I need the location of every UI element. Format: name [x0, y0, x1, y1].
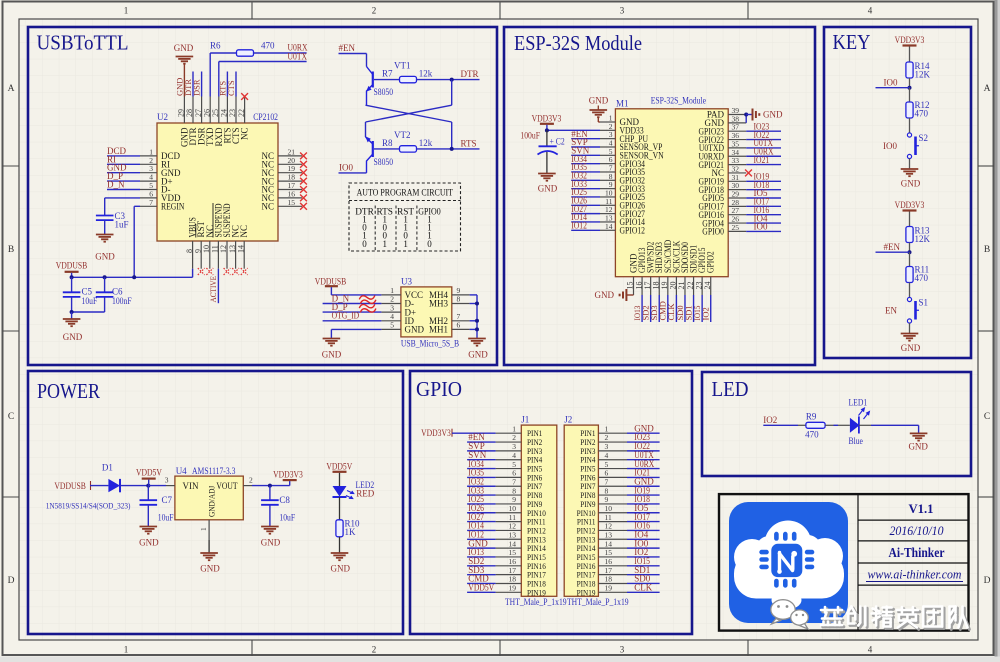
svg-text:R6: R6 — [210, 41, 221, 51]
svg-text:25: 25 — [732, 223, 740, 232]
svg-text:POWER: POWER — [37, 379, 100, 403]
svg-text:2: 2 — [249, 476, 253, 485]
svg-text:ACTIVE: ACTIVE — [208, 276, 218, 303]
svg-text:9: 9 — [512, 495, 516, 504]
svg-text:1: 1 — [124, 645, 129, 655]
svg-text:470: 470 — [805, 430, 819, 440]
svg-text:7: 7 — [512, 477, 516, 486]
svg-text:17: 17 — [509, 566, 517, 575]
svg-text:12: 12 — [605, 522, 613, 531]
svg-text:100uF: 100uF — [520, 131, 540, 141]
svg-text:MH1: MH1 — [429, 325, 448, 335]
svg-text:2016/10/10: 2016/10/10 — [890, 523, 944, 538]
svg-text:GND: GND — [322, 350, 342, 360]
svg-text:9: 9 — [605, 495, 609, 504]
svg-text:3: 3 — [165, 476, 169, 485]
svg-text:DSR: DSR — [192, 79, 202, 96]
svg-text:S1: S1 — [919, 298, 929, 308]
svg-text:16: 16 — [509, 557, 517, 566]
svg-text:IO2: IO2 — [701, 307, 711, 320]
svg-text:15: 15 — [605, 548, 613, 557]
svg-text:2: 2 — [512, 433, 516, 442]
svg-text:14: 14 — [605, 222, 613, 231]
svg-text:3: 3 — [605, 442, 609, 451]
svg-text:ESP-32S Module: ESP-32S Module — [514, 31, 642, 55]
svg-text:R7: R7 — [382, 69, 393, 79]
svg-text:+ C2: + C2 — [550, 137, 565, 147]
svg-text:GND: GND — [763, 110, 783, 120]
svg-text:B: B — [984, 245, 990, 255]
svg-text:GND: GND — [901, 343, 921, 353]
svg-text:IO2: IO2 — [763, 415, 777, 425]
svg-text:1: 1 — [403, 239, 408, 249]
svg-text:17: 17 — [605, 566, 613, 575]
svg-text:Blue: Blue — [849, 436, 863, 446]
svg-text:8: 8 — [512, 486, 516, 495]
svg-text:DTR: DTR — [461, 69, 479, 79]
svg-text:1: 1 — [124, 6, 129, 16]
svg-text:GND: GND — [901, 179, 921, 189]
svg-text:470: 470 — [915, 273, 929, 283]
svg-text:AUTO PROGRAM CIRCUIT: AUTO PROGRAM CIRCUIT — [357, 189, 454, 199]
svg-text:14: 14 — [236, 245, 245, 253]
svg-text:13: 13 — [605, 530, 613, 539]
svg-text:1: 1 — [382, 239, 387, 249]
svg-text:NC: NC — [240, 128, 250, 141]
svg-text:13: 13 — [509, 530, 517, 539]
svg-text:VDD3V3: VDD3V3 — [895, 200, 925, 210]
svg-text:RTS: RTS — [461, 138, 477, 148]
svg-text:LED: LED — [712, 377, 749, 401]
svg-text:4: 4 — [512, 451, 516, 460]
svg-text:U2: U2 — [157, 112, 168, 122]
svg-text:VDD5V: VDD5V — [468, 583, 494, 593]
svg-text:10uF: 10uF — [158, 513, 174, 523]
svg-text:5: 5 — [390, 321, 394, 330]
svg-text:J2: J2 — [564, 415, 572, 425]
svg-text:VDDUSB: VDDUSB — [56, 261, 88, 271]
svg-text:GND: GND — [63, 332, 83, 342]
svg-text:3: 3 — [620, 6, 625, 16]
svg-text:3: 3 — [620, 645, 625, 655]
svg-text:C: C — [984, 412, 990, 422]
svg-text:VDD3V3: VDD3V3 — [273, 469, 303, 479]
svg-text:5: 5 — [605, 460, 609, 469]
svg-text:GND: GND — [405, 325, 425, 335]
svg-text:GPIO0: GPIO0 — [702, 227, 724, 237]
svg-text:16: 16 — [605, 557, 613, 566]
svg-text:S8050: S8050 — [374, 87, 394, 97]
svg-text:GND/ADJ: GND/ADJ — [207, 485, 217, 517]
svg-text:U4: U4 — [176, 466, 187, 476]
svg-text:VDD5V: VDD5V — [326, 462, 352, 472]
svg-text:3: 3 — [512, 442, 516, 451]
svg-text:0: 0 — [362, 239, 367, 249]
svg-text:22: 22 — [237, 109, 246, 117]
svg-text:6: 6 — [512, 469, 516, 478]
svg-text:Ai-Thinker: Ai-Thinker — [889, 545, 945, 560]
svg-text:C: C — [8, 412, 14, 422]
svg-text:18: 18 — [605, 575, 613, 584]
svg-text:24: 24 — [703, 282, 712, 290]
svg-text:GND: GND — [95, 252, 115, 262]
svg-text:14: 14 — [509, 539, 517, 548]
svg-text:VOUT: VOUT — [216, 481, 238, 491]
svg-text:470: 470 — [261, 41, 275, 51]
svg-text:14: 14 — [605, 539, 613, 548]
svg-text:2: 2 — [372, 645, 377, 655]
svg-text:6: 6 — [457, 321, 461, 330]
svg-text:D1: D1 — [102, 463, 113, 473]
svg-text:THT_Male_P_1x19: THT_Male_P_1x19 — [505, 597, 567, 607]
svg-text:CP2102: CP2102 — [253, 112, 278, 122]
svg-text:MH3: MH3 — [429, 299, 449, 309]
svg-text:OTG_ID: OTG_ID — [332, 311, 360, 321]
svg-text:USBToTTL: USBToTTL — [37, 31, 129, 55]
svg-text:10uF: 10uF — [82, 296, 98, 306]
svg-text:VDDUSB: VDDUSB — [315, 276, 347, 286]
svg-text:S8050: S8050 — [374, 157, 394, 167]
svg-text:19: 19 — [509, 584, 517, 593]
svg-text:J1: J1 — [521, 415, 529, 425]
svg-text:REGIN: REGIN — [161, 202, 185, 212]
svg-text:7: 7 — [605, 477, 609, 486]
svg-text:8: 8 — [457, 295, 461, 304]
svg-text:12: 12 — [509, 522, 517, 531]
svg-text:10uF: 10uF — [279, 513, 295, 523]
svg-text:12k: 12k — [419, 138, 433, 148]
svg-text:5: 5 — [512, 460, 516, 469]
svg-text:12K: 12K — [915, 234, 931, 244]
svg-text:LED1: LED1 — [849, 398, 868, 408]
svg-text:THT_Male_P_1x19: THT_Male_P_1x19 — [567, 597, 629, 607]
svg-text:19: 19 — [605, 584, 613, 593]
svg-text:#EN: #EN — [339, 43, 356, 53]
svg-text:100nF: 100nF — [112, 296, 132, 306]
svg-text:10: 10 — [605, 504, 613, 513]
svg-text:B: B — [8, 245, 14, 255]
svg-text:VDD3V3: VDD3V3 — [421, 428, 451, 438]
svg-text:M1: M1 — [616, 99, 629, 109]
svg-text:C8: C8 — [279, 495, 290, 505]
svg-text:GND: GND — [538, 184, 558, 194]
svg-text:U0TX: U0TX — [288, 51, 308, 61]
svg-text:NC: NC — [261, 202, 274, 212]
svg-text:VDD3V3: VDD3V3 — [895, 35, 925, 45]
svg-text:IO0: IO0 — [339, 163, 353, 173]
svg-text:ESP-32S_Module: ESP-32S_Module — [651, 96, 706, 106]
svg-text:IO21: IO21 — [754, 155, 770, 165]
svg-text:VDD5V: VDD5V — [136, 468, 162, 478]
svg-text:15: 15 — [509, 548, 517, 557]
svg-text:IO0: IO0 — [883, 141, 897, 151]
svg-text:GND: GND — [174, 43, 194, 53]
svg-text:3: 3 — [390, 303, 394, 312]
svg-text:IO12: IO12 — [571, 220, 587, 230]
svg-text:1: 1 — [512, 424, 516, 433]
svg-text:1: 1 — [605, 424, 609, 433]
svg-text:1: 1 — [199, 527, 208, 531]
svg-text:C6: C6 — [112, 287, 123, 297]
svg-text:4: 4 — [868, 6, 873, 16]
svg-text:GPIO2: GPIO2 — [706, 251, 716, 273]
svg-text:2: 2 — [605, 433, 609, 442]
svg-text:PIN19: PIN19 — [527, 587, 546, 597]
svg-text:IO0: IO0 — [884, 78, 898, 88]
svg-text:#EN: #EN — [884, 242, 901, 252]
svg-text:CLK: CLK — [634, 583, 653, 593]
svg-text:1K: 1K — [345, 527, 357, 537]
svg-text:RED: RED — [356, 489, 375, 499]
svg-text:VIN: VIN — [183, 481, 199, 491]
svg-text:PIN19: PIN19 — [577, 587, 596, 597]
svg-text:GND: GND — [331, 564, 351, 574]
svg-text:VT2: VT2 — [394, 130, 411, 140]
svg-text:470: 470 — [915, 109, 929, 119]
svg-text:S2: S2 — [919, 133, 929, 143]
svg-text:A: A — [984, 84, 991, 94]
svg-text:VT1: VT1 — [394, 61, 411, 71]
svg-text:GPIO: GPIO — [416, 377, 462, 401]
svg-text:4: 4 — [605, 451, 609, 460]
svg-text:12k: 12k — [419, 69, 433, 79]
svg-text:6: 6 — [605, 469, 609, 478]
svg-text:GND: GND — [200, 564, 220, 574]
svg-text:GPIO12: GPIO12 — [620, 225, 646, 235]
svg-text:KEY: KEY — [833, 30, 871, 54]
svg-text:D: D — [8, 576, 15, 586]
svg-text:1N5819/SS14/S4(SOD_323): 1N5819/SS14/S4(SOD_323) — [46, 501, 131, 511]
svg-text:GND: GND — [261, 538, 281, 548]
svg-text:U3: U3 — [401, 276, 412, 286]
svg-text:R9: R9 — [806, 412, 817, 422]
svg-text:www.ai-thinker.com: www.ai-thinker.com — [868, 568, 962, 582]
svg-text:USB_Micro_5S_B: USB_Micro_5S_B — [401, 338, 459, 348]
svg-text:VDD3V3: VDD3V3 — [532, 114, 562, 124]
svg-text:0: 0 — [427, 239, 432, 249]
svg-text:GND: GND — [908, 442, 928, 452]
svg-text:1uF: 1uF — [115, 220, 129, 230]
svg-text:NC: NC — [239, 225, 249, 238]
svg-text:7: 7 — [149, 198, 153, 207]
svg-text:CTS: CTS — [226, 80, 236, 96]
svg-text:C5: C5 — [82, 287, 93, 297]
svg-text:18: 18 — [509, 575, 517, 584]
svg-text:GND: GND — [595, 290, 615, 300]
svg-text:R8: R8 — [382, 138, 393, 148]
svg-text:11: 11 — [605, 513, 612, 522]
svg-text:GND: GND — [589, 96, 609, 106]
svg-text:GND: GND — [139, 538, 159, 548]
svg-text:15: 15 — [288, 198, 296, 207]
svg-text:V1.1: V1.1 — [909, 501, 934, 516]
svg-text:11: 11 — [509, 513, 516, 522]
svg-text:AMS1117-3.3: AMS1117-3.3 — [192, 466, 236, 476]
svg-text:IO0: IO0 — [754, 222, 768, 232]
svg-text:10: 10 — [509, 504, 517, 513]
svg-text:D_N: D_N — [107, 180, 125, 190]
svg-text:8: 8 — [605, 486, 609, 495]
svg-text:4: 4 — [868, 645, 873, 655]
svg-text:VDDUSB: VDDUSB — [54, 481, 86, 491]
svg-text:2: 2 — [372, 6, 377, 16]
svg-text:D: D — [984, 576, 991, 586]
svg-text:A: A — [8, 84, 15, 94]
svg-text:GND: GND — [468, 350, 488, 360]
svg-text:EN: EN — [885, 305, 897, 315]
svg-text:12K: 12K — [915, 70, 931, 80]
svg-text:C7: C7 — [162, 495, 173, 505]
